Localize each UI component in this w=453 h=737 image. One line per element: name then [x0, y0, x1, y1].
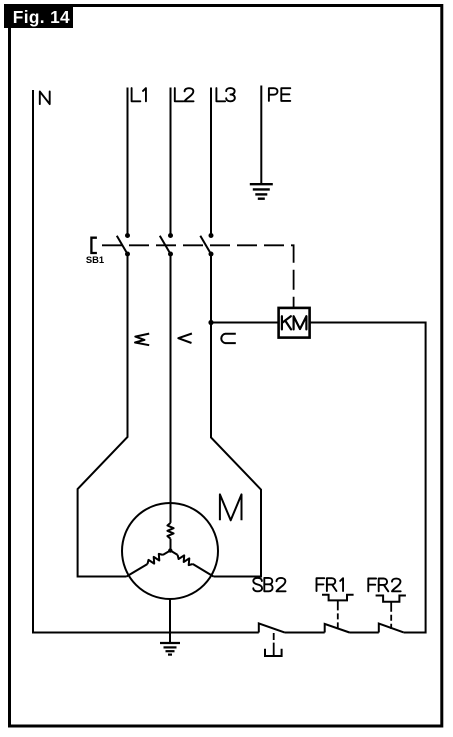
svg-text:Fig. 14: Fig. 14	[13, 7, 70, 27]
svg-text:SB1: SB1	[86, 254, 104, 265]
